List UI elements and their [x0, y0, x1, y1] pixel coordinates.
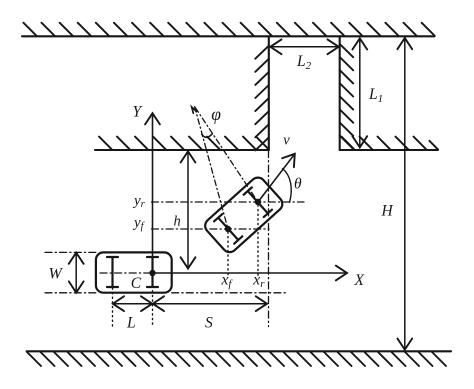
parked car front axle — [147, 257, 158, 287]
dotted guide below rear axle — [112, 288, 114, 327]
svg-text:yr: yr — [132, 193, 146, 210]
middle-left wall hatching — [99, 137, 269, 150]
phi angle arc — [202, 134, 213, 138]
svg-text:φ: φ — [211, 104, 221, 124]
dimension h arrow — [187, 151, 189, 268]
dotted guide x_f — [227, 232, 229, 277]
svg-text:yf: yf — [132, 215, 146, 232]
svg-text:S: S — [205, 315, 213, 332]
svg-text:L2: L2 — [296, 53, 312, 72]
svg-text:X: X — [354, 272, 365, 289]
maneuvering car front axle — [214, 214, 242, 244]
dash-dot steering line B to front axle — [195, 107, 228, 229]
front axle point — [225, 226, 231, 232]
dash-dot guide car bottom — [45, 292, 288, 294]
Y axis — [152, 113, 154, 273]
dimension W arrow — [75, 253, 77, 293]
svg-text:W: W — [49, 266, 64, 283]
dimension L2 arrow — [270, 46, 338, 48]
arrowhead at phi vertex — [192, 107, 197, 113]
dimension L arrow — [113, 303, 152, 305]
top wall hatching — [23, 23, 434, 36]
dash-dot guide y_f — [152, 228, 270, 230]
svg-text:θ: θ — [294, 176, 302, 193]
velocity vector v — [258, 154, 295, 202]
dash-dot vertical at bay corner — [268, 151, 270, 327]
svg-text:v: v — [283, 133, 290, 149]
middle-left wall line — [95, 149, 269, 151]
svg-text:C: C — [131, 275, 142, 292]
maneuvering car body (rotated) — [202, 175, 285, 256]
X axis — [153, 272, 348, 274]
svg-text:H: H — [381, 203, 394, 220]
theta angle arc — [283, 169, 292, 203]
middle-right wall line — [340, 149, 438, 151]
dotted guide below origin — [152, 277, 154, 327]
svg-text:L: L — [126, 315, 136, 332]
origin point C — [149, 270, 155, 276]
svg-text:Y: Y — [133, 104, 143, 121]
parked car rear axle — [107, 257, 118, 287]
dash-dot guide y_r — [152, 201, 305, 203]
dimension L1 arrow — [359, 38, 361, 147]
dash-dot centerline of parked car — [100, 272, 150, 274]
svg-text:xf: xf — [221, 272, 234, 291]
dimension S arrow — [153, 303, 267, 305]
svg-text:h: h — [174, 214, 181, 230]
dimension H arrow — [404, 38, 406, 350]
parking bay left wall line — [268, 36, 270, 150]
dash-dot steering line A to rear axle — [195, 108, 258, 202]
svg-text:L1: L1 — [368, 86, 383, 105]
parked car body — [96, 252, 172, 292]
dash-dot guide car top — [45, 251, 96, 253]
bottom wall hatching — [27, 352, 446, 366]
maneuvering car rear axle — [244, 187, 272, 217]
top wall line — [22, 35, 435, 37]
dotted guide x_r — [257, 205, 259, 277]
svg-text:xr: xr — [252, 272, 265, 291]
bottom wall line — [27, 350, 451, 352]
rear axle point — [255, 199, 261, 205]
parking bay right wall line — [339, 36, 341, 150]
parking bay left wall hatching — [255, 46, 268, 151]
parking bay right wall hatching — [340, 44, 354, 149]
middle-right wall hatching — [342, 137, 439, 150]
